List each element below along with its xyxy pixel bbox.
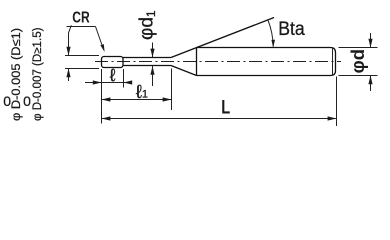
svg-text:0: 0	[23, 93, 31, 109]
svg-text:ℓ1: ℓ1	[136, 82, 148, 103]
svg-text:0: 0	[3, 93, 11, 109]
svg-text:φ D-0.007 (D≥1.5): φ D-0.007 (D≥1.5)	[32, 27, 44, 121]
svg-text:ℓ: ℓ	[109, 65, 116, 85]
svg-text:φd: φd	[347, 49, 368, 74]
svg-text:Bta: Bta	[278, 19, 305, 40]
svg-text:φd1: φd1	[136, 10, 158, 40]
svg-text:CR: CR	[72, 10, 90, 27]
svg-text:L: L	[221, 97, 230, 119]
